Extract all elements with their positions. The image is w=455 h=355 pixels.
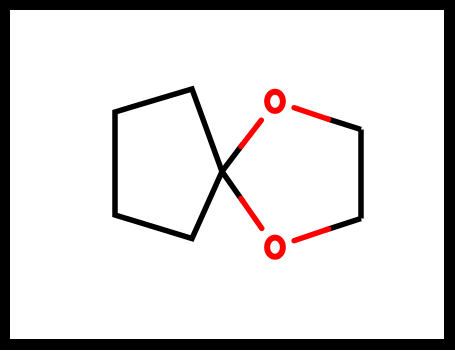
border frame top [0,0,455,10]
bond O3-C2 red half [241,199,262,229]
bond O3-C2 black half [222,172,243,202]
oxygen O1 [267,92,283,111]
bond C4-O3 black half [326,219,361,231]
border frame bottom [0,339,455,350]
border frame right [444,0,455,350]
bond O1-C5 red half [294,108,329,120]
bond C5-C4 [358,130,364,219]
cyclopentane ring [115,89,222,239]
oxygen O3 [267,238,283,257]
bond C2-O1 red half [241,120,261,146]
bond C4-O3 red half [294,229,329,241]
bond O1-C5 black half [326,118,361,129]
bond C2-O1 black half [222,144,243,172]
border frame left [0,0,10,350]
